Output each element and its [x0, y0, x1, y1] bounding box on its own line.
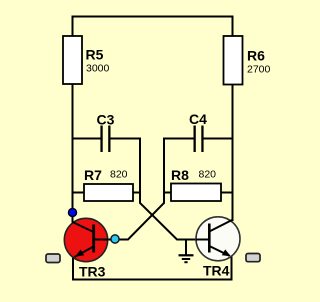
svg-text:3000: 3000	[86, 63, 110, 75]
svg-text:C3: C3	[97, 112, 115, 128]
svg-text:R6: R6	[247, 48, 265, 64]
svg-text:820: 820	[199, 169, 217, 181]
svg-text:2700: 2700	[247, 64, 271, 76]
svg-text:820: 820	[110, 169, 128, 181]
svg-text:R8: R8	[171, 167, 189, 183]
svg-text:R7: R7	[84, 167, 102, 183]
svg-text:TR3: TR3	[79, 263, 106, 279]
svg-text:R5: R5	[86, 47, 104, 63]
svg-text:C4: C4	[189, 111, 207, 127]
svg-text:TR4: TR4	[203, 263, 230, 279]
